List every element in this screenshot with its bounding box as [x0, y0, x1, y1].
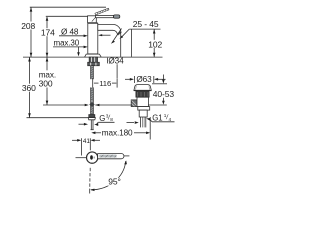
- svg-text:Ø34: Ø34: [108, 56, 124, 65]
- svg-text:116: 116: [99, 79, 111, 88]
- drain body upper: [136, 91, 149, 97]
- wire deck line: [23, 56, 163, 58]
- arrow at body: [98, 34, 110, 36]
- dimension G1 1/4: [146, 113, 174, 123]
- swivel arc 95: [90, 160, 127, 191]
- dimension Ø48 leader: [59, 27, 88, 37]
- svg-text:Ø63: Ø63: [136, 75, 152, 84]
- extension line 25-45 left: [131, 29, 133, 57]
- drain union collar: [138, 107, 150, 111]
- top view supply line: [76, 157, 87, 159]
- lever raised phantom: [95, 8, 109, 15]
- dimension G3/8: [79, 114, 115, 126]
- svg-text:360: 360: [22, 83, 36, 93]
- svg-text:25 - 45: 25 - 45: [133, 19, 159, 29]
- top view body circle: [87, 152, 98, 163]
- drain flange: [134, 85, 151, 91]
- drain side port: [131, 100, 137, 107]
- dimension max.300: [38, 57, 57, 105]
- svg-text:95°: 95°: [108, 177, 121, 187]
- spout: [98, 24, 121, 34]
- svg-text:208: 208: [21, 21, 35, 31]
- faucet base flange: [85, 54, 102, 57]
- dimension 208 extension line top: [30, 6, 106, 8]
- mounting shank: [89, 57, 97, 62]
- dimension 25 - 45: [129, 19, 160, 29]
- svg-text:40-53: 40-53: [153, 89, 175, 99]
- svg-text:174: 174: [41, 27, 55, 37]
- dimension Ø63: [125, 75, 166, 84]
- svg-text:max.180: max.180: [102, 128, 133, 137]
- drain flange base: [134, 89, 152, 92]
- faucet body: [88, 23, 98, 54]
- drain tailpiece: [139, 110, 147, 117]
- supply hose: [91, 66, 94, 115]
- svg-text:G: G: [99, 114, 105, 123]
- dimension 208: [20, 7, 36, 57]
- hose nut: [88, 118, 95, 120]
- dimension max.30 leader: [53, 39, 88, 57]
- reference line hose end: [27, 117, 89, 119]
- stream direction arrow: [111, 29, 122, 44]
- centerline dashes: [89, 168, 92, 194]
- aerator: [118, 32, 122, 35]
- dimension 174 extension line: [46, 15, 88, 17]
- svg-text:41: 41: [83, 138, 90, 145]
- tail thread: [141, 117, 146, 127]
- lever closed: [96, 15, 120, 18]
- dimension max.180: [91, 128, 150, 137]
- extension line drain: [149, 117, 151, 140]
- extension line handle tip: [124, 155, 129, 157]
- dimension 174: [40, 17, 56, 58]
- top view spout outlet: [90, 155, 93, 159]
- dimension 41: [72, 138, 100, 156]
- dimension Ø34: [107, 56, 127, 65]
- mounting nut: [88, 62, 100, 65]
- cartridge cap: [88, 16, 97, 23]
- connection thread G3/8: [91, 120, 94, 130]
- label 95 degrees: [108, 178, 123, 186]
- svg-text:max.30: max.30: [54, 39, 80, 48]
- hose bead: [89, 102, 94, 107]
- top view handle: [98, 154, 124, 159]
- leader arrow to aerator: [120, 29, 130, 39]
- dimension 116: [90, 64, 119, 88]
- drain body lower: [137, 97, 148, 106]
- svg-text:102: 102: [148, 39, 162, 49]
- dimension 360: [21, 57, 38, 118]
- leader arrow to tailpiece left: [127, 121, 139, 124]
- svg-text:G1: G1: [152, 114, 162, 123]
- extension line outlet: [120, 32, 122, 57]
- svg-text:300: 300: [39, 79, 53, 89]
- svg-text:Ø 48: Ø 48: [61, 27, 79, 36]
- hose end collar: [89, 115, 95, 118]
- reference line lower: [43, 104, 167, 107]
- dimension 102: [148, 29, 164, 57]
- dimension 40-53: [152, 75, 174, 105]
